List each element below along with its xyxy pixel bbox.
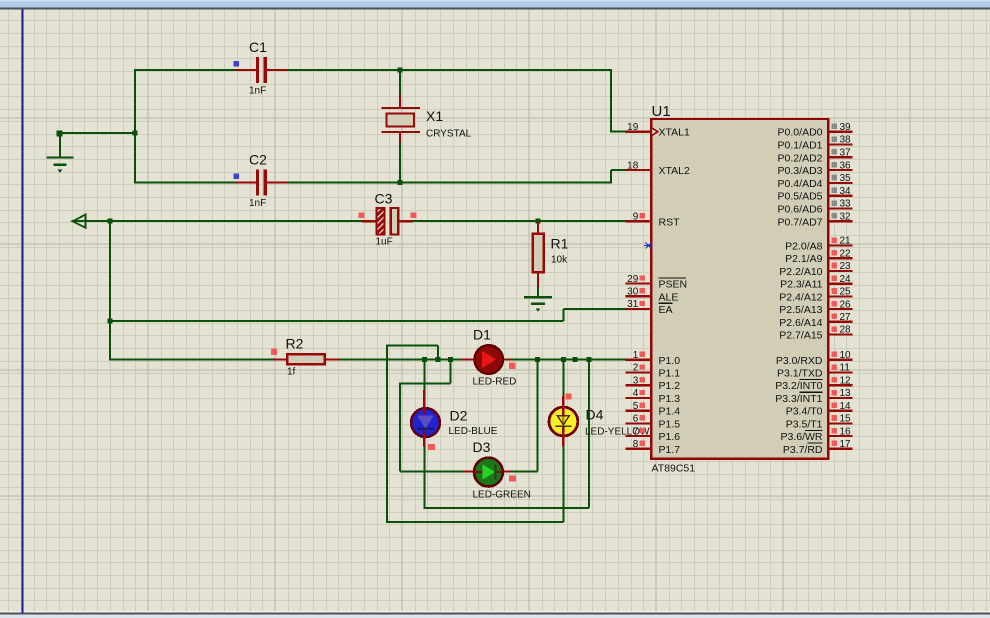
pin 29 PSEN (left) <box>626 274 687 291</box>
pin 36 P0.3/AD3 (right) <box>778 160 853 177</box>
svg-text:29: 29 <box>627 274 639 285</box>
svg-text:P2.5/A13: P2.5/A13 <box>779 304 822 316</box>
svg-text:P1.1: P1.1 <box>659 368 681 380</box>
svg-text:P1.0: P1.0 <box>659 355 681 367</box>
pin 7 P1.6 (left) <box>626 426 681 443</box>
svg-text:33: 33 <box>840 199 852 210</box>
svg-text:19: 19 <box>627 122 639 133</box>
pin 33 P0.6/AD6 (right) <box>778 199 853 216</box>
svg-text:26: 26 <box>840 299 852 310</box>
pin 4 P1.3 (left) <box>626 388 681 405</box>
pin 1 P1.0 (left) <box>626 350 681 367</box>
pin 16 P3.6/WR (right) <box>780 426 852 443</box>
junction node dot on P1.0 bus <box>573 357 578 362</box>
svg-text:P3.2/INT0: P3.2/INT0 <box>775 380 822 392</box>
hidden power-pin marker (blue) <box>644 243 653 249</box>
junction node D2 cathode riser on P1.0 bus <box>586 357 591 362</box>
resistor R2 <box>271 336 340 378</box>
pin 13 P3.3/INT1 (right) <box>775 388 852 405</box>
svg-text:R1: R1 <box>551 236 569 252</box>
svg-text:12: 12 <box>840 375 852 386</box>
svg-text:C1: C1 <box>249 39 267 55</box>
pin 3 P1.2 (left) <box>626 375 681 392</box>
pin 32 P0.7/AD7 (right) <box>778 212 853 229</box>
svg-text:P1.4: P1.4 <box>659 406 681 418</box>
LED D1 (red) <box>461 327 516 388</box>
svg-text:17: 17 <box>840 439 852 450</box>
junction node X1 top / C1 wire <box>398 68 403 73</box>
svg-text:30: 30 <box>627 287 639 298</box>
svg-text:2: 2 <box>633 363 639 374</box>
pin 38 P0.1/AD1 (right) <box>778 135 853 152</box>
svg-text:XTAL2: XTAL2 <box>659 165 690 177</box>
svg-text:P1.2: P1.2 <box>659 380 681 392</box>
wire RST row <box>72 220 363 222</box>
pin 18 XTAL2 (left) <box>626 160 690 177</box>
svg-text:14: 14 <box>840 401 852 412</box>
ground (under R1) <box>524 297 552 304</box>
svg-text:10: 10 <box>840 350 852 361</box>
svg-text:6: 6 <box>633 414 639 425</box>
svg-text:8: 8 <box>633 439 639 450</box>
svg-text:15: 15 <box>840 414 852 425</box>
pin 37 P0.2/AD2 (right) <box>778 148 853 165</box>
pin 2 P1.1 (left) <box>626 363 681 380</box>
svg-text:1nF: 1nF <box>249 86 266 97</box>
wire end square at ground tap <box>57 131 63 137</box>
svg-text:XTAL1: XTAL1 <box>659 127 690 139</box>
svg-text:P2.7/A15: P2.7/A15 <box>779 330 822 342</box>
svg-text:P3.5/T1: P3.5/T1 <box>786 418 823 430</box>
ground (left) <box>47 133 74 165</box>
pin 8 P1.7 (left) <box>626 439 681 456</box>
pin 6 P1.5 (left) <box>626 414 681 431</box>
svg-text:CRYSTAL: CRYSTAL <box>426 129 472 140</box>
svg-text:RST: RST <box>659 216 681 228</box>
junction node D4 anode riser on P1.0 bus <box>561 357 566 362</box>
svg-text:11: 11 <box>840 363 851 374</box>
svg-text:37: 37 <box>840 148 852 159</box>
junction node D2 branch on P1.0 bus <box>422 357 427 362</box>
svg-text:34: 34 <box>840 186 852 197</box>
svg-text:35: 35 <box>840 173 852 184</box>
wire crystal X1 verticals <box>399 70 401 95</box>
pin 17 P3.7/RD (right) <box>783 439 853 456</box>
LED D4 (yellow) <box>549 393 650 446</box>
svg-text:22: 22 <box>840 248 852 259</box>
svg-text:1uF: 1uF <box>376 237 393 248</box>
LED D3 (green) <box>463 439 531 501</box>
svg-text:P0.0/AD0: P0.0/AD0 <box>778 127 823 139</box>
svg-text:P1.5: P1.5 <box>659 418 681 430</box>
junction node EA wire / left riser <box>108 318 113 323</box>
svg-text:P2.4/A12: P2.4/A12 <box>779 291 822 303</box>
wire left vertical x=110 <box>109 221 111 360</box>
wire bus row P1.0 <box>110 359 273 361</box>
pin 11 P3.1/TXD (right) <box>777 363 853 380</box>
svg-text:D2: D2 <box>450 408 468 424</box>
svg-text:21: 21 <box>840 236 852 247</box>
pin 27 P2.6/A14 (right) <box>779 312 852 329</box>
svg-text:10k: 10k <box>551 255 568 266</box>
svg-text:P3.4/T0: P3.4/T0 <box>786 406 823 418</box>
pin 28 P2.7/A15 (right) <box>779 325 852 342</box>
svg-text:P3.3/INT1: P3.3/INT1 <box>775 393 822 405</box>
svg-text:5: 5 <box>633 401 639 412</box>
svg-text:X1: X1 <box>426 108 443 124</box>
LED D2 (blue) <box>411 390 498 450</box>
svg-text:7: 7 <box>633 426 639 437</box>
junction node D3 cathode riser on P1.0 bus <box>535 357 540 362</box>
pin 23 P2.2/A10 (right) <box>779 261 852 278</box>
wire D3 loop <box>449 360 451 384</box>
svg-text:LED-BLUE: LED-BLUE <box>449 426 498 437</box>
svg-text:P3.7/RD: P3.7/RD <box>783 444 823 456</box>
svg-text:P1.6: P1.6 <box>659 431 681 443</box>
svg-text:P0.7/AD7: P0.7/AD7 <box>778 216 823 228</box>
svg-text:P2.6/A14: P2.6/A14 <box>779 317 822 329</box>
svg-text:38: 38 <box>840 135 852 146</box>
svg-text:23: 23 <box>840 261 852 272</box>
svg-text:4: 4 <box>633 388 639 399</box>
svg-text:P1.7: P1.7 <box>659 444 681 456</box>
wire D2 branch <box>423 360 425 391</box>
svg-text:LED-GREEN: LED-GREEN <box>473 490 531 501</box>
svg-text:1f: 1f <box>287 367 296 378</box>
pin 26 P2.5/A13 (right) <box>779 299 852 316</box>
svg-text:AT89C51: AT89C51 <box>652 463 696 475</box>
svg-text:P3.6/WR: P3.6/WR <box>780 431 822 443</box>
pin 12 P3.2/INT0 (right) <box>775 375 852 392</box>
svg-text:P0.2/AD2: P0.2/AD2 <box>778 152 823 164</box>
wire EA net <box>563 308 625 310</box>
svg-text:3: 3 <box>633 375 639 386</box>
svg-text:P2.2/A10: P2.2/A10 <box>779 266 822 278</box>
svg-text:P3.0/RXD: P3.0/RXD <box>776 355 823 367</box>
junction node R1 top / RST wire <box>536 219 541 224</box>
pin 5 P1.4 (left) <box>626 401 681 418</box>
wire R1 ground stub <box>537 287 539 298</box>
pin 24 P2.3/A11 (right) <box>780 274 852 291</box>
pin 34 P0.5/AD5 (right) <box>778 186 853 203</box>
pin 31 EA (left) <box>626 299 673 316</box>
pin 10 P3.0/RXD (right) <box>776 350 853 367</box>
svg-text:C2: C2 <box>249 152 267 168</box>
wire C1 row <box>135 69 235 71</box>
resistor R1 <box>533 221 569 287</box>
svg-text:ALE: ALE <box>659 291 679 303</box>
svg-text:D3: D3 <box>473 439 491 455</box>
left sheet border <box>22 9 24 613</box>
terminal arrow (left, RST net) <box>73 215 86 228</box>
svg-text:P2.0/A8: P2.0/A8 <box>785 241 823 253</box>
bottom bar <box>0 611 990 613</box>
pin 22 P2.1/A9 (right) <box>785 248 852 265</box>
XTAL1 clock arrow on pin 19 <box>651 128 658 136</box>
svg-text:PSEN: PSEN <box>659 279 688 291</box>
svg-text:18: 18 <box>627 160 639 171</box>
wire D4 loop <box>437 346 439 360</box>
svg-text:13: 13 <box>840 388 852 399</box>
svg-text:36: 36 <box>840 160 852 171</box>
svg-text:U1: U1 <box>652 103 671 120</box>
pin 14 P3.4/T0 (right) <box>786 401 853 418</box>
svg-text:D4: D4 <box>586 407 604 423</box>
svg-text:9: 9 <box>633 212 639 223</box>
pin 39 P0.0/AD0 (right) <box>778 122 853 139</box>
pin 30 ALE (left) <box>626 287 679 304</box>
pin 21 P2.0/A8 (right) <box>785 236 852 253</box>
svg-text:C3: C3 <box>375 191 393 207</box>
pin 9 RST (left) <box>626 212 680 229</box>
capacitor C3 (polarized) <box>359 191 417 248</box>
svg-text:32: 32 <box>840 212 852 223</box>
svg-text:28: 28 <box>840 325 852 336</box>
svg-text:P0.3/AD3: P0.3/AD3 <box>778 165 823 177</box>
junction node X1 bottom / C2 wire <box>398 180 403 185</box>
pin 19 XTAL1 (left) <box>626 122 690 139</box>
junction node at ground / C1-C2 vertical <box>133 131 138 136</box>
svg-text:24: 24 <box>840 274 852 285</box>
junction node terminal riser / RST wire <box>108 219 113 224</box>
svg-text:27: 27 <box>840 312 852 323</box>
svg-text:P3.1/TXD: P3.1/TXD <box>777 368 823 380</box>
svg-text:P1.3: P1.3 <box>659 393 681 405</box>
svg-text:P0.4/AD4: P0.4/AD4 <box>778 178 823 190</box>
crystal X1 <box>382 95 472 143</box>
pin 35 P0.4/AD4 (right) <box>778 173 853 190</box>
svg-text:R2: R2 <box>286 336 304 352</box>
svg-text:P0.1/AD1: P0.1/AD1 <box>778 140 823 152</box>
wire C2 row <box>135 182 235 184</box>
capacitor C1 <box>234 39 288 97</box>
svg-text:P2.3/A11: P2.3/A11 <box>780 279 823 291</box>
svg-text:1nF: 1nF <box>249 198 266 209</box>
capacitor C2 <box>234 152 288 210</box>
wire gnd to C1/C2 vertical <box>59 132 136 134</box>
svg-text:D1: D1 <box>473 327 491 343</box>
svg-text:16: 16 <box>840 426 852 437</box>
junction node D4 loop on P1.0 bus <box>435 357 440 362</box>
top toolbar strip <box>0 0 990 8</box>
pin 25 P2.4/A12 (right) <box>779 287 852 304</box>
svg-text:P2.1/A9: P2.1/A9 <box>785 253 823 265</box>
svg-text:39: 39 <box>840 122 852 133</box>
svg-text:25: 25 <box>840 287 852 298</box>
svg-text:1: 1 <box>633 350 639 361</box>
svg-text:EA: EA <box>659 304 673 316</box>
chip U1 AT89C51 <box>651 103 828 475</box>
svg-text:P0.5/AD5: P0.5/AD5 <box>778 191 823 203</box>
junction node D3 anode loop on P1.0 bus <box>448 357 453 362</box>
svg-text:31: 31 <box>627 299 639 310</box>
pin 15 P3.5/T1 (right) <box>786 414 853 431</box>
svg-text:LED-RED: LED-RED <box>473 377 517 388</box>
svg-text:P0.6/AD6: P0.6/AD6 <box>778 204 823 216</box>
